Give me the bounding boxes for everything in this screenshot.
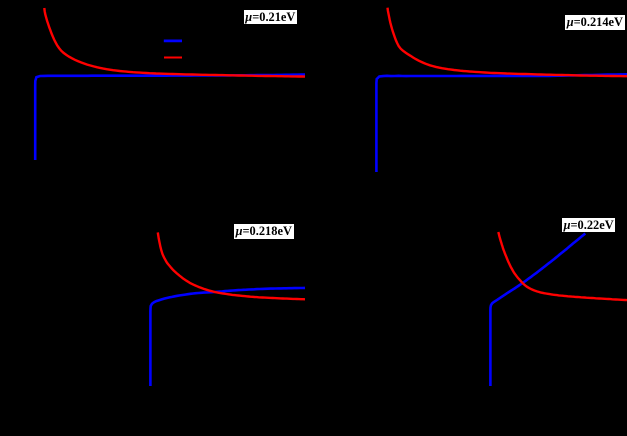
red curve subplot 4 (bottom-right) (498, 232, 627, 300)
label mu=0.214eV (subplot 2) (565, 15, 626, 30)
red curve subplot 3 (bottom-left) (158, 232, 305, 299)
red curve subplot 1 (top-left) (44, 8, 305, 77)
blue curve subplot 3 (bottom-left) (150, 288, 305, 386)
red curve subplot 2 (top-right) (388, 8, 627, 77)
blue curve subplot 1 (top-left) (35, 75, 305, 160)
blue curve subplot 2 (top-right) (376, 74, 627, 172)
legend swatch blue (subplot 1) (164, 40, 182, 43)
label mu=0.22eV (subplot 4) (562, 218, 616, 233)
legend swatch red (subplot 1) (164, 56, 182, 58)
label mu=0.218eV (subplot 3) (234, 224, 295, 239)
label mu=0.21eV (subplot 1) (244, 10, 298, 25)
blue curve subplot 4 (bottom-right) (490, 234, 585, 387)
